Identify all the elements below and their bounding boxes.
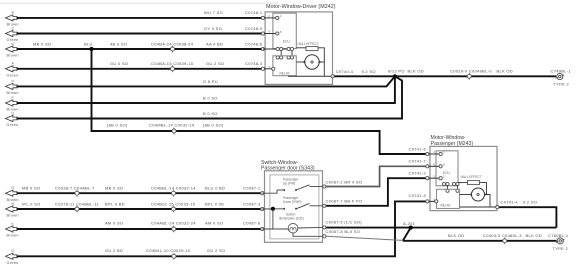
wire ground BLK OD — [403, 240, 557, 242]
svg-text:2: 2 — [443, 150, 445, 154]
svg-text:C0741-2: C0741-2 — [409, 171, 427, 176]
svg-text:MB 0 SO: MB 0 SO — [22, 186, 40, 191]
relay pin left — [272, 67, 275, 70]
switch common vertical — [272, 209, 274, 229]
svg-text:d: d — [12, 42, 14, 46]
svg-text:BLU 0 BD: BLU 0 BD — [205, 186, 225, 191]
svg-text:Green: Green — [7, 73, 19, 77]
link ECU-relay b — [291, 51, 293, 58]
svg-text:GU 0 SO: GU 0 SO — [110, 61, 128, 66]
wire M242 output BLK OD — [334, 75, 556, 77]
connector C04BBL-14/C0032-14 — [172, 190, 176, 197]
svg-text:AM 0 SO: AM 0 SO — [205, 220, 223, 225]
wire row9 MB 0 SO — [17, 192, 262, 194]
relay top pin b — [287, 56, 290, 59]
svg-text:Brown: Brown — [7, 214, 19, 218]
wire row4 GU 0 SO — [17, 68, 263, 70]
svg-text:G 5 PU: G 5 PU — [203, 79, 218, 84]
switch passenger up — [277, 178, 323, 191]
wire row5 to splice — [17, 76, 395, 86]
m243 link b — [457, 185, 459, 190]
svg-text:C0748-1: C0748-1 — [245, 10, 263, 15]
ECU pin 8 — [276, 32, 279, 35]
feed row9 to switch up — [262, 190, 277, 193]
svg-text:9.2 SO: 9.2 SO — [362, 69, 376, 74]
off-page connector row10 (h) — [6, 226, 18, 232]
wire row11 AM 0 SO — [17, 228, 262, 230]
svg-text:C0087-6: C0087-6 — [243, 220, 261, 225]
pin C0740-4 M242 — [331, 75, 334, 78]
wire C0087-8 BL0 SO — [326, 236, 403, 240]
svg-text:C0087-5 (L/1 SO): C0087-5 (L/1 SO) — [326, 219, 363, 224]
svg-text:GU 2 SO: GU 2 SO — [207, 248, 225, 253]
svg-text:U: U — [12, 111, 15, 115]
svg-text:4B 0 SO: 4B 0 SO — [110, 41, 127, 46]
svg-text:C0748-3: C0748-3 — [245, 61, 263, 66]
svg-text:RELAY: RELAY — [441, 204, 452, 208]
wire relay to motor — [296, 61, 304, 63]
splice S-201 top — [393, 74, 397, 78]
svg-text:RELAY: RELAY — [280, 72, 291, 76]
svg-text:C0748-6: C0748-6 — [245, 41, 263, 46]
svg-text:Up (PW): Up (PW) — [283, 182, 295, 186]
svg-text:MB 0 SO: MB 0 SO — [33, 41, 51, 46]
wire C0087-2 BR 4 SO — [326, 166, 427, 186]
hall effect sensor M242 — [298, 42, 319, 51]
ECU lower pin d — [290, 47, 293, 50]
svg-text:d: d — [12, 79, 14, 83]
svg-text:Brown: Brown — [7, 234, 19, 238]
svg-text:C0087-7 BB-F PO: C0087-7 BB-F PO — [326, 198, 363, 203]
component box Motor-Window-Driver M242 — [265, 4, 336, 85]
component box Motor-Window-Passenger M243 — [430, 135, 497, 211]
svg-text:C0278-11 C04BBL-11: C0278-11 C04BBL-11 — [55, 201, 100, 206]
m243 ECU lower pin b — [446, 182, 449, 185]
svg-text:S: S — [12, 11, 15, 15]
pin C0087-6 — [261, 227, 264, 230]
pin C0087-1 — [261, 192, 264, 195]
pin C0748-3 M242 — [261, 67, 264, 70]
svg-text:8: 8 — [443, 163, 445, 167]
switch illumination lamp — [279, 212, 304, 233]
svg-text:C0741-6: C0741-6 — [409, 147, 427, 152]
svg-text:C04B4L-10 C0029-10: C04B4L-10 C0029-10 — [146, 248, 191, 253]
m243 ECU lower pin a — [442, 182, 445, 185]
svg-text:C0741-7: C0741-7 — [409, 158, 427, 163]
svg-text:C04B0L-15 C0033-15: C04B0L-15 C0033-15 — [151, 201, 196, 206]
svg-text:A: A — [12, 62, 15, 66]
wire row8 branch 6B 0 SO — [92, 49, 427, 154]
wire hall to motor branch — [318, 48, 324, 77]
hall effect sensor M243 — [461, 175, 482, 185]
wire row12 GU 2 SO — [17, 201, 427, 256]
feed row10 inside — [262, 208, 284, 210]
pin C0087-3 — [261, 207, 264, 210]
off-page connector row3 (d) — [6, 46, 18, 52]
wire row1 WU 7 SO — [17, 17, 263, 19]
switch passenger down — [283, 196, 323, 210]
svg-text:Motor-Window-Driver (M242): Motor-Window-Driver (M242) — [266, 4, 336, 10]
stub m243 pin3 — [429, 177, 441, 179]
svg-text:C0741-9: C0741-9 — [409, 193, 427, 198]
off-page connector row1 (S) — [6, 15, 18, 21]
m243 hall to motor branch — [480, 183, 487, 195]
pin C0087-8 — [323, 235, 326, 238]
motor symbol M243 — [470, 188, 486, 201]
ring terminal C749BL-1 — [556, 73, 564, 79]
svg-text:C04BA-15 C0039-15: C04BA-15 C0039-15 — [151, 61, 194, 66]
svg-text:BLU: BLU — [84, 41, 93, 46]
wire row7 to splice — [17, 76, 403, 118]
relay top pin b2 — [290, 56, 293, 59]
svg-text:C0740-4: C0740-4 — [336, 69, 354, 74]
connector C04B4L-10/C0029-10 — [172, 253, 176, 260]
svg-text:A-201: A-201 — [403, 221, 416, 226]
svg-text:9/12 PO: 9/12 PO — [388, 69, 405, 74]
junction switch common — [271, 207, 275, 211]
connector C04MBL-14/C0032-14 — [172, 128, 176, 135]
connector C0038-7/C04ABL-7 — [75, 190, 79, 197]
svg-text:8: 8 — [280, 30, 282, 34]
m243 ECU to hall — [458, 182, 467, 184]
ECU lower pin a — [276, 47, 279, 50]
svg-text:(6B 0 SO): (6B 0 SO) — [203, 123, 224, 128]
relay block M243 — [437, 189, 460, 208]
pin C0741-2 M243 — [426, 177, 429, 180]
svg-text:C0087-2 BR 4 SO: C0087-2 BR 4 SO — [326, 179, 363, 184]
svg-text:BPL 0 0D: BPL 0 0D — [205, 201, 224, 206]
svg-text:C0087-8 BL0 SO: C0087-8 BL0 SO — [326, 229, 361, 234]
wire ECU to hall — [296, 47, 306, 49]
junction row3/row8 — [89, 47, 93, 51]
svg-text:HALL EFFECT: HALL EFFECT — [461, 175, 482, 179]
pin C0741-9 M243 — [426, 200, 429, 203]
relay top pin a2 — [280, 56, 283, 59]
feed row11 to lamp — [262, 228, 288, 230]
svg-text:GU 2 SO: GU 2 SO — [206, 61, 224, 66]
svg-text:C749BL-1: C749BL-1 — [551, 69, 572, 74]
pin C0748-6 M242 — [261, 47, 264, 50]
svg-text:5: 5 — [443, 175, 445, 179]
relay block M242 — [273, 56, 296, 76]
svg-text:C04BBL-14 C0032-14: C04BBL-14 C0032-14 — [151, 186, 196, 191]
ECU lower pin c — [287, 47, 290, 50]
svg-text:C04BA-24 C0038-24: C04BA-24 C0038-24 — [151, 41, 194, 46]
connector C0278-11/C04BBL-11 — [75, 206, 79, 213]
svg-text:BLK OD: BLK OD — [526, 233, 542, 238]
svg-text:Brown: Brown — [7, 91, 19, 95]
svg-text:C0087-3: C0087-3 — [243, 201, 261, 206]
svg-text:BLK OD: BLK OD — [408, 69, 424, 74]
m243 ECU lower pin d — [456, 182, 459, 185]
off-page connector row7 (U) — [6, 115, 18, 121]
splice diagonal — [403, 228, 411, 241]
m243 ECU pin 8 — [439, 165, 442, 168]
svg-text:MB 0 SO: MB 0 SO — [105, 186, 123, 191]
svg-text:(6B 0 SO): (6B 0 SO) — [107, 123, 128, 128]
svg-text:HALL EFFECT: HALL EFFECT — [298, 42, 319, 46]
svg-text:C04MBL-14 C0032-14: C04MBL-14 C0032-14 — [149, 123, 195, 128]
pin C0087-2 — [323, 185, 326, 188]
svg-text:C0748-9: C0748-9 — [245, 26, 263, 31]
ring terminal C780BL-1 — [556, 238, 564, 244]
wire M243 output 9.2 SO — [499, 207, 557, 227]
stub m243 pin1 — [429, 153, 441, 155]
pin C0741-7 M243 — [426, 165, 429, 168]
svg-text:C: C — [12, 26, 15, 30]
svg-text:TYPE 2: TYPE 2 — [553, 246, 569, 251]
relay top pin a — [276, 56, 279, 59]
svg-text:B 0 SO: B 0 SO — [203, 96, 218, 101]
off-page connector row5 (d) — [6, 83, 18, 89]
svg-text:Green: Green — [7, 123, 19, 127]
m243 link a — [447, 185, 449, 190]
svg-text:8: 8 — [433, 162, 435, 166]
lamp to C0087-8 — [293, 233, 323, 236]
off-page connector row8 (G) — [6, 190, 18, 196]
m243 relay to motor — [460, 194, 471, 196]
svg-text:2: 2 — [280, 14, 282, 18]
connector C04BA-24/C0038-24 — [171, 46, 175, 53]
svg-text:C780BL-1: C780BL-1 — [548, 233, 569, 238]
off-page connector row6 (F) — [6, 100, 18, 106]
svg-text:GU 2 BD: GU 2 BD — [105, 248, 123, 253]
component box Switch-Window-Passenger door S343 — [261, 160, 323, 242]
wire row3 MB 0 SO — [17, 48, 263, 50]
wire row2 GY 0 SO — [17, 33, 263, 35]
stub m243 pin4 — [429, 200, 437, 202]
wire C0087-5 to splice A-201 — [326, 227, 556, 229]
off-page connector row9 (H) — [6, 206, 18, 212]
svg-text:BPL 0 BD: BPL 0 BD — [105, 201, 125, 206]
svg-text:Down (PWR): Down (PWR) — [283, 200, 302, 204]
svg-text:AA 0 BD: AA 0 BD — [206, 41, 223, 46]
link ECU-relay a — [280, 51, 282, 58]
m243 relay pin left — [435, 200, 438, 203]
m243 relay top pin a — [446, 189, 449, 192]
m243 ECU lower pin c — [452, 182, 455, 185]
wire C0087-7 BB-F PO — [326, 178, 427, 206]
off-page connector row4 (A) — [6, 66, 18, 72]
svg-text:C04ABL-24 C0032-24: C04ABL-24 C0032-24 — [151, 220, 196, 225]
svg-text:GY 0 SO: GY 0 SO — [204, 26, 222, 31]
pin C0748-9 M242 — [261, 32, 264, 35]
m243 ECU pin 2 — [439, 152, 442, 155]
row3 inner wire — [263, 48, 291, 50]
m243 relay out — [460, 206, 497, 208]
connector C0029-0/C0049BL-0 — [467, 73, 471, 80]
connector C04B0L-15/C0033-15 — [172, 206, 176, 213]
stub row2 to ECU — [265, 33, 278, 35]
svg-text:G: G — [12, 186, 15, 190]
ECU block M242 — [273, 13, 296, 48]
m243 relay top pin b — [456, 189, 459, 192]
off-page connector row11 (C) — [6, 253, 18, 259]
svg-text:H: H — [12, 202, 15, 206]
pin C0741-4 M243 — [496, 206, 499, 209]
off-page connector row2 (C) — [6, 30, 18, 36]
svg-text:WU 7 SO: WU 7 SO — [204, 10, 223, 15]
svg-text:C: C — [12, 249, 15, 253]
svg-text:B 0 SO: B 0 SO — [203, 111, 218, 116]
svg-text:C0029-0 C0049BL-0: C0029-0 C0049BL-0 — [450, 69, 492, 74]
stub row1 to ECU — [265, 17, 278, 19]
connector C0403-3/C0480BL-3 — [503, 237, 507, 244]
lamp to C0087-5 — [298, 226, 323, 229]
wire row6 to splice — [17, 76, 395, 103]
svg-text:BLK OD: BLK OD — [448, 233, 464, 238]
svg-text:Brown: Brown — [7, 54, 19, 58]
svg-text:9.2 SO: 9.2 SO — [523, 200, 537, 205]
ECU pin 2 — [276, 16, 279, 19]
wire row10 IPL 0 SO — [17, 208, 262, 210]
pin C0748-1 M242 — [261, 16, 264, 19]
svg-text:TYPE 2: TYPE 2 — [554, 81, 570, 86]
connector C04ABL-24/C0032-24 — [172, 226, 176, 233]
svg-text:C0038-7 C04ABL-7: C0038-7 C04ABL-7 — [55, 186, 95, 191]
svg-text:illumination (S30): illumination (S30) — [279, 216, 304, 220]
m243 motor out — [485, 195, 490, 208]
stub m243 pin2 — [429, 165, 441, 167]
motor symbol M242 — [303, 55, 320, 69]
svg-text:C0403-3 C0480L-3: C0403-3 C0480L-3 — [483, 233, 522, 238]
ECU block M243 — [436, 151, 458, 186]
wire relay to out pin — [288, 75, 333, 77]
svg-text:C0087-1: C0087-1 — [243, 186, 261, 191]
svg-text:h: h — [12, 222, 14, 226]
pin C0087-5 — [323, 226, 326, 229]
m243 ECU pin 5 — [439, 177, 442, 180]
svg-text:IPL 0 SO: IPL 0 SO — [22, 201, 40, 206]
stub row4 to relay — [265, 68, 273, 70]
svg-text:BLK OD: BLK OD — [497, 69, 513, 74]
ECU lower pin b — [280, 47, 283, 50]
splice A-201 — [409, 226, 413, 230]
svg-text:AM 0 SO: AM 0 SO — [105, 220, 123, 225]
svg-text:Green: Green — [7, 261, 19, 265]
connector C04BA-15/C0039-15 — [171, 65, 175, 72]
svg-text:ECU: ECU — [283, 40, 290, 44]
svg-text:C0741-4: C0741-4 — [501, 200, 519, 205]
pin C0087-7 — [323, 204, 326, 207]
wire motor out — [320, 61, 325, 63]
pin C0741-6 M243 — [426, 152, 429, 155]
